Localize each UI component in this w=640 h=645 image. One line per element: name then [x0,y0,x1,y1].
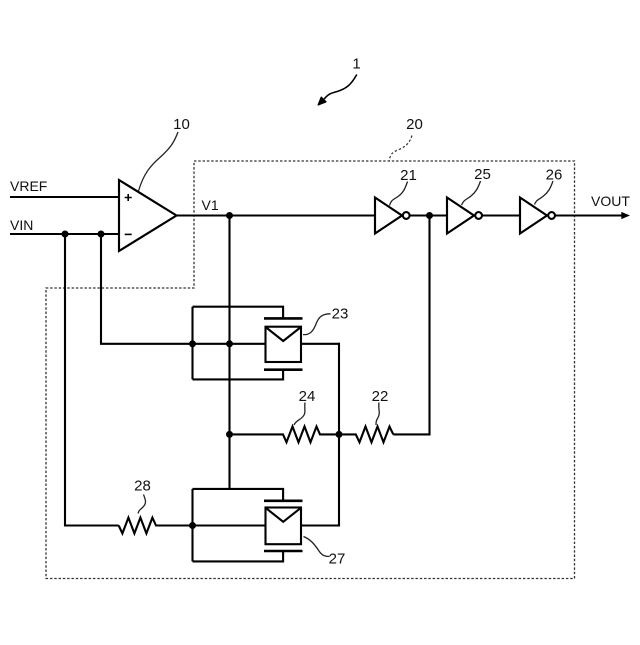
inverter 25 [447,198,474,234]
gate wire right of 27 [301,524,340,526]
resistor 28 [119,518,266,534]
svg-text:25: 25 [474,166,491,183]
inverter 21 [375,198,402,234]
transistor 23 (memory FET block) [193,307,341,380]
svg-text:26: 26 [546,167,563,184]
gate wire right of 23 [301,343,340,345]
wire vertical from junction after 21 down to resistor 22 row [393,216,429,435]
wire inverter 21 to inverter 25 [410,214,447,216]
wire vertical VIN to resistor 28 row [65,234,119,526]
wire VIN input [10,233,119,235]
wire vertical VIN to transistor 23 gate row [101,234,266,344]
wire VOUT output with arrowhead [555,214,623,216]
leader arrow for 1 [324,75,357,100]
svg-text:V1: V1 [202,197,219,213]
svg-text:23: 23 [332,306,349,323]
leader for 24 [294,403,305,426]
transistor 27 (memory FET block) [193,489,341,562]
leader for 26 [535,181,554,205]
bottom contact bar of 27 [264,550,303,553]
svg-text:24: 24 [299,388,316,405]
svg-text:VIN: VIN [10,217,33,233]
svg-text:22: 22 [372,388,389,405]
bottom rail of 27 [193,551,284,561]
top rail of 27 [193,489,284,501]
top contact bar of 27 [264,499,303,502]
node V1 junction dot [226,212,233,219]
inverter 26 [520,198,547,234]
svg-text:20: 20 [406,116,423,133]
gate box of 27 with envelope [266,508,302,545]
leader for 21 [390,182,408,206]
svg-text:VREF: VREF [10,178,47,194]
wire VIN junction dot 2 [98,231,105,238]
leader for 23 [303,314,331,335]
node dot bracket 27 [189,522,196,529]
bottom rail of 23 [193,370,284,380]
node dot center line at 23 gate row [226,340,233,347]
node junction dot after inverter 21 [426,212,433,219]
gate box of 23 with envelope [266,327,302,362]
leader for 28 [138,495,146,514]
inverter 21 output bubble [403,212,410,219]
wire VIN junction dot 1 [62,231,69,238]
wire VREF input [10,196,119,198]
top contact bar of 23 [264,317,303,320]
svg-text:28: 28 [134,478,151,495]
svg-text:27: 27 [329,551,346,568]
op-amp 10 (comparator triangle) [119,180,177,251]
svg-text:21: 21 [400,167,417,184]
wire node V1 vertical down to block 27 top rail [228,216,230,489]
left bracket of 23 [191,307,193,380]
inverter 26 output bubble [548,212,555,219]
left bracket of 27 [191,489,193,562]
node dot bracket 23 [189,340,196,347]
node dot resistor row center line [226,431,233,438]
wire inverter 25 to inverter 26 [482,214,520,216]
bottom contact bar of 23 [264,368,303,371]
top rail of 23 [193,307,284,319]
op-amp plus input mark [125,194,132,201]
leader for 22 [376,403,379,426]
node dot right bracket at resistor row [336,431,343,438]
svg-text:10: 10 [173,116,190,133]
resistor 24 [230,427,340,443]
leader for 25 [462,181,481,205]
wire right bracket vertical (23 gate to 27 gate) [338,343,340,527]
dashed block outline 20 (L-shaped) [46,161,575,579]
leader for 10 [139,132,179,191]
resistor 22 [339,427,393,443]
inverter 25 output bubble [475,212,482,219]
svg-text:1: 1 [352,56,360,73]
op-amp minus input mark [125,233,132,235]
leader for 20 (dashed) [389,136,412,161]
wire op-amp output to inverter 21 [177,214,376,216]
leader for 27 [304,537,330,557]
svg-text:VOUT: VOUT [591,193,630,209]
